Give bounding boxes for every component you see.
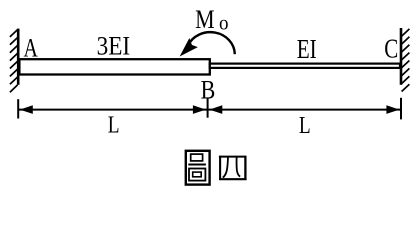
svg-text:EI: EI: [297, 34, 317, 64]
svg-text:3EI: 3EI: [97, 31, 131, 60]
svg-text:L: L: [299, 113, 311, 139]
svg-text:A: A: [24, 34, 39, 63]
svg-text:B: B: [201, 75, 216, 104]
svg-text:C: C: [384, 33, 398, 63]
svg-text:M: M: [195, 5, 215, 34]
svg-text:L: L: [108, 113, 120, 139]
svg-text:o: o: [219, 13, 229, 35]
